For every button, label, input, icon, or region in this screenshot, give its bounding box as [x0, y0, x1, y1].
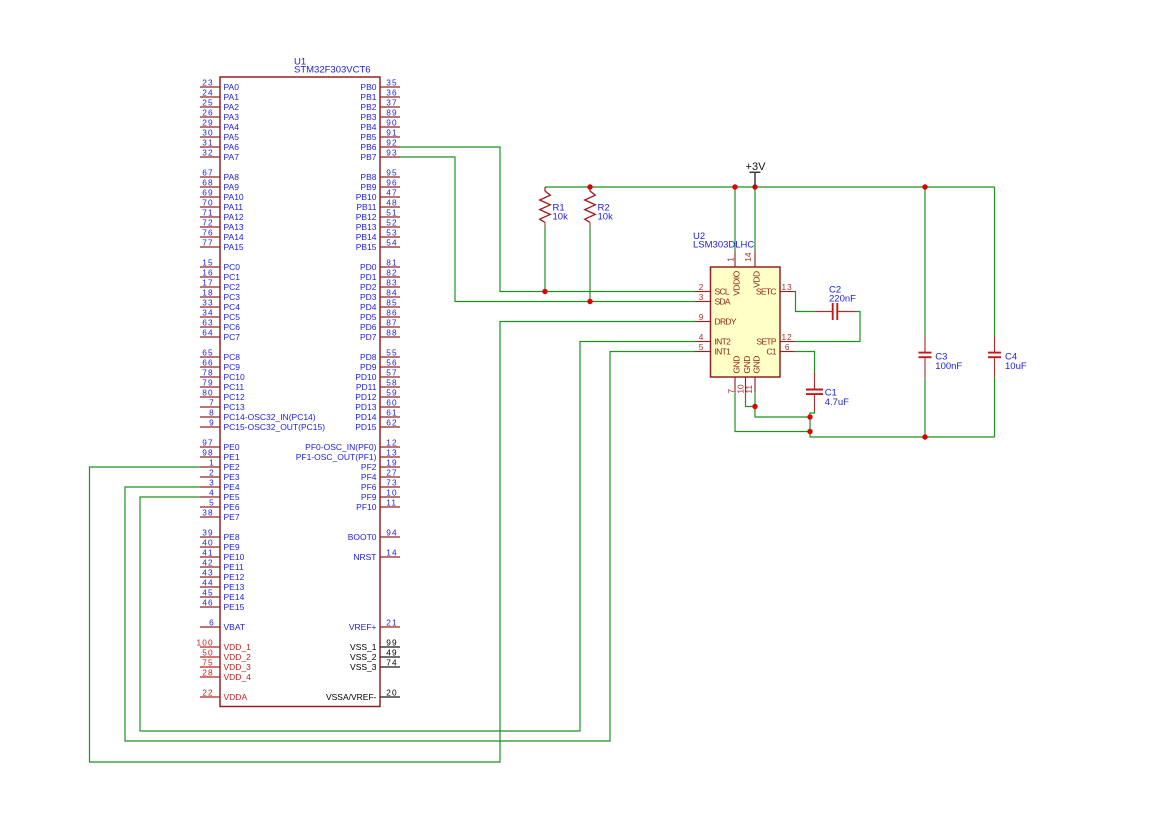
U1 pin 52 PB13 — [356, 217, 400, 232]
svg-text:13: 13 — [781, 282, 792, 292]
U1 pin 19 PF2 — [361, 457, 400, 472]
U1 pin 5 PE6 — [200, 497, 240, 512]
svg-text:74: 74 — [386, 657, 397, 667]
U2 pin 4 INT2 — [695, 332, 731, 347]
svg-text:GND: GND — [751, 356, 761, 374]
U1 pin 13 PF1-OSC_OUT(PF1) — [296, 447, 400, 462]
U1 pin 31 PA6 — [200, 137, 239, 152]
svg-text:PB5: PB5 — [360, 132, 376, 142]
U1 pin 92 PB6 — [360, 137, 400, 152]
U1 pin 95 PB8 — [360, 167, 400, 182]
svg-text:PD9: PD9 — [360, 362, 377, 372]
svg-text:20: 20 — [386, 687, 397, 697]
U2 pin 5 INT1 — [695, 342, 731, 357]
wire PB6 pin92 to U2 SCL — [400, 147, 695, 292]
U1 pin 18 PC3 — [200, 287, 240, 302]
U1 pin 59 PD12 — [355, 387, 400, 402]
U1 pin 86 PD5 — [360, 307, 400, 322]
wire PB7 pin93 to U2 SDA — [400, 157, 695, 302]
U1 pin 61 PD14 — [355, 407, 400, 422]
svg-text:94: 94 — [386, 527, 397, 537]
svg-text:GND: GND — [742, 356, 752, 374]
U1 pin 63 PC6 — [200, 317, 240, 332]
U1 pin 68 PA9 — [200, 177, 239, 192]
svg-text:PC4: PC4 — [224, 302, 241, 312]
U1 pin 66 PC9 — [200, 357, 240, 372]
U1 pin 98 PE1 — [200, 447, 240, 462]
svg-text:7: 7 — [726, 389, 736, 394]
U1 pin 44 PE13 — [200, 577, 245, 592]
svg-text:PC1: PC1 — [224, 272, 241, 282]
wire +3V rail to U2 VDDIO — [734, 187, 736, 253]
svg-text:34: 34 — [202, 307, 213, 317]
svg-text:4: 4 — [209, 487, 214, 497]
svg-text:PB7: PB7 — [360, 152, 376, 162]
capacitor C4 10uF — [988, 336, 1027, 378]
U1 pin 75 VDD_3 — [200, 657, 251, 672]
U1 pin 38 PE7 — [200, 507, 240, 522]
U1 pin 47 PB10 — [356, 187, 400, 202]
svg-text:C1: C1 — [766, 347, 776, 357]
wire +3V rail to C4 — [994, 187, 996, 336]
svg-text:43: 43 — [202, 567, 213, 577]
svg-text:78: 78 — [202, 367, 213, 377]
svg-text:VDD_4: VDD_4 — [224, 672, 252, 682]
svg-text:10: 10 — [386, 487, 397, 497]
svg-text:PC10: PC10 — [224, 372, 246, 382]
U1 pin 78 PC10 — [200, 367, 245, 382]
svg-text:PC11: PC11 — [224, 382, 245, 392]
op-amp U1 STM32F303VCT6 body — [220, 57, 380, 707]
svg-text:24: 24 — [202, 87, 213, 97]
svg-text:6: 6 — [785, 342, 790, 352]
svg-text:PB0: PB0 — [360, 82, 376, 92]
svg-text:10k: 10k — [553, 212, 569, 223]
svg-text:55: 55 — [386, 347, 397, 357]
svg-text:79: 79 — [202, 377, 213, 387]
U1 pin 1 PE2 — [200, 457, 240, 472]
svg-text:99: 99 — [386, 637, 397, 647]
svg-text:39: 39 — [202, 527, 213, 537]
U1 pin 42 PE11 — [200, 557, 244, 572]
U1 pin 62 PD15 — [355, 417, 400, 432]
svg-text:100: 100 — [197, 637, 214, 647]
svg-text:PB6: PB6 — [360, 142, 376, 152]
U1 pin 40 PE9 — [200, 537, 240, 552]
svg-text:PF0-OSC_IN(PF0): PF0-OSC_IN(PF0) — [305, 442, 376, 452]
wire U2 INT2 to U1 PE5 — [140, 342, 695, 732]
svg-text:PD3: PD3 — [360, 292, 377, 302]
junction R2 / SDA — [587, 299, 592, 304]
svg-text:INT2: INT2 — [715, 337, 732, 347]
svg-text:PC8: PC8 — [224, 352, 241, 362]
svg-text:5: 5 — [699, 342, 704, 352]
svg-text:PB2: PB2 — [360, 102, 376, 112]
U1 pin 6 VBAT — [200, 617, 245, 632]
svg-text:PC2: PC2 — [224, 282, 241, 292]
U2 pin 7 GND — [726, 356, 742, 394]
capacitor C1 4.7uF — [806, 372, 849, 412]
U1 pin 70 PA11 — [200, 197, 243, 212]
U1 pin 3 PE4 — [200, 477, 240, 492]
svg-text:83: 83 — [386, 277, 397, 287]
svg-text:6: 6 — [209, 617, 214, 627]
U2 pin 10 GND — [735, 356, 752, 394]
svg-text:PD6: PD6 — [360, 322, 377, 332]
wire U2 INT1 to U1 PE4 — [125, 352, 695, 742]
U1 pin 93 PB7 — [360, 147, 400, 162]
svg-text:PC14-OSC32_IN(PC14): PC14-OSC32_IN(PC14) — [224, 412, 316, 422]
U1 pin 91 PB5 — [360, 127, 400, 142]
svg-text:PA8: PA8 — [224, 172, 240, 182]
U1 pin 30 PA5 — [200, 127, 239, 142]
U1 pin 54 PB15 — [356, 237, 400, 252]
svg-text:PC0: PC0 — [224, 262, 241, 272]
svg-text:23: 23 — [202, 77, 213, 87]
U1 pin 72 PA13 — [200, 217, 244, 232]
svg-text:PD8: PD8 — [360, 352, 377, 362]
svg-text:VSS_3: VSS_3 — [350, 662, 377, 672]
svg-text:54: 54 — [386, 237, 397, 247]
svg-text:80: 80 — [202, 387, 213, 397]
svg-text:10k: 10k — [598, 212, 614, 223]
wire U2 SETC to C2 — [795, 292, 815, 312]
svg-text:PA0: PA0 — [224, 82, 240, 92]
U1 pin 60 PD13 — [355, 397, 400, 412]
svg-text:75: 75 — [202, 657, 213, 667]
svg-text:61: 61 — [386, 407, 397, 417]
svg-text:PB1: PB1 — [360, 92, 376, 102]
U2 pin 12 SETP — [756, 332, 794, 347]
svg-text:PB15: PB15 — [356, 242, 377, 252]
U1 pin 71 PA12 — [200, 207, 244, 222]
svg-text:VDD_3: VDD_3 — [224, 662, 252, 672]
svg-text:SETP: SETP — [756, 337, 776, 347]
U1 pin 88 PD7 — [360, 327, 400, 342]
wire C2 to U2 SETP — [795, 312, 861, 342]
U1 pin 53 PB14 — [356, 227, 400, 242]
svg-text:85: 85 — [386, 297, 397, 307]
svg-text:PF10: PF10 — [356, 502, 377, 512]
svg-text:LSM303DLHC: LSM303DLHC — [693, 240, 754, 251]
svg-text:21: 21 — [386, 617, 397, 627]
svg-text:PD14: PD14 — [355, 412, 377, 422]
svg-text:PB10: PB10 — [356, 192, 377, 202]
U1 pin 14 NRST — [353, 547, 400, 562]
svg-text:PF1-OSC_OUT(PF1): PF1-OSC_OUT(PF1) — [296, 452, 377, 462]
svg-text:PA2: PA2 — [224, 102, 240, 112]
svg-text:PA1: PA1 — [224, 92, 240, 102]
svg-text:96: 96 — [386, 177, 397, 187]
svg-text:PC7: PC7 — [224, 332, 241, 342]
svg-text:97: 97 — [202, 437, 213, 447]
svg-text:STM32F303VCT6: STM32F303VCT6 — [294, 65, 371, 76]
svg-text:PE3: PE3 — [224, 472, 240, 482]
wire C4 to GND rail — [994, 378, 996, 438]
svg-text:PD1: PD1 — [360, 272, 377, 282]
svg-text:PE13: PE13 — [224, 582, 245, 592]
svg-text:PD7: PD7 — [360, 332, 377, 342]
svg-text:22: 22 — [202, 687, 213, 697]
svg-text:87: 87 — [386, 317, 397, 327]
svg-text:93: 93 — [386, 147, 397, 157]
svg-text:PE8: PE8 — [224, 532, 240, 542]
wire U2 DRDY to U1 PE2 — [90, 322, 696, 763]
svg-text:VDDA: VDDA — [224, 692, 248, 702]
U1 pin 76 PA14 — [200, 227, 244, 242]
svg-text:98: 98 — [202, 447, 213, 457]
junction VDDIO / +3V — [732, 184, 737, 189]
svg-text:4.7uF: 4.7uF — [825, 397, 849, 408]
svg-text:27: 27 — [386, 467, 397, 477]
U1 pin 79 PC11 — [200, 377, 244, 392]
svg-text:PF2: PF2 — [361, 462, 377, 472]
svg-text:48: 48 — [386, 197, 397, 207]
U1 pin 64 PC7 — [200, 327, 240, 342]
svg-text:72: 72 — [202, 217, 213, 227]
svg-text:PC12: PC12 — [224, 392, 246, 402]
wire U2 C1 pin6 to C1 cap — [795, 352, 815, 373]
svg-text:PB9: PB9 — [360, 182, 376, 192]
svg-text:86: 86 — [386, 307, 397, 317]
U1 pin 17 PC2 — [200, 277, 240, 292]
svg-text:PC13: PC13 — [224, 402, 246, 412]
U1 pin 26 PA3 — [200, 107, 239, 122]
svg-text:9: 9 — [209, 417, 214, 427]
svg-text:38: 38 — [202, 507, 213, 517]
U1 pin 22 VDDA — [200, 687, 247, 702]
U1 pin 24 PA1 — [200, 87, 239, 102]
svg-text:64: 64 — [202, 327, 213, 337]
svg-text:NRST: NRST — [353, 552, 376, 562]
svg-text:66: 66 — [202, 357, 213, 367]
svg-text:VSS_1: VSS_1 — [350, 642, 377, 652]
svg-text:PE0: PE0 — [224, 442, 240, 452]
U1 pin 41 PE10 — [200, 547, 245, 562]
junction GND pins 10-11 — [752, 404, 757, 409]
U1 pin 29 PA4 — [200, 117, 239, 132]
svg-text:62: 62 — [386, 417, 397, 427]
svg-text:VBAT: VBAT — [224, 622, 246, 632]
U2 pin 13 SETC — [756, 282, 795, 297]
svg-text:44: 44 — [202, 577, 213, 587]
svg-text:92: 92 — [386, 137, 397, 147]
svg-text:PC9: PC9 — [224, 362, 241, 372]
U1 pin 48 PB11 — [356, 197, 400, 212]
svg-text:57: 57 — [386, 367, 397, 377]
svg-text:14: 14 — [743, 252, 753, 262]
svg-text:15: 15 — [202, 257, 213, 267]
svg-text:PA9: PA9 — [224, 182, 240, 192]
svg-text:18: 18 — [202, 287, 213, 297]
U1 pin 21 VREF+ — [349, 617, 400, 632]
U1 pin 33 PC4 — [200, 297, 240, 312]
svg-text:49: 49 — [386, 647, 397, 657]
svg-text:52: 52 — [386, 217, 397, 227]
U2 pin 6 C1 — [766, 342, 794, 357]
U2 pin 9 DRDY — [695, 312, 737, 327]
svg-text:PC6: PC6 — [224, 322, 241, 332]
U2 pin 1 VDDIO — [726, 253, 742, 296]
svg-text:PF4: PF4 — [361, 472, 377, 482]
U1 pin 37 PB2 — [360, 97, 400, 112]
U1 pin 9 PC15-OSC32_OUT(PC15) — [200, 417, 325, 432]
svg-text:PB4: PB4 — [360, 122, 376, 132]
svg-text:2: 2 — [699, 282, 704, 292]
svg-text:50: 50 — [202, 647, 213, 657]
U1 pin 7 PC13 — [200, 397, 245, 412]
svg-text:PB13: PB13 — [356, 222, 377, 232]
U1 pin 45 PE14 — [200, 587, 245, 602]
U1 pin 67 PA8 — [200, 167, 239, 182]
U2 pin 3 SDA — [695, 292, 731, 307]
U1 pin 4 PE5 — [200, 487, 240, 502]
svg-text:10uF: 10uF — [1005, 361, 1027, 372]
junction R1 / SCL — [542, 289, 547, 294]
svg-text:13: 13 — [386, 447, 397, 457]
svg-text:GND: GND — [731, 356, 741, 374]
svg-text:40: 40 — [202, 537, 213, 547]
svg-text:5: 5 — [209, 497, 214, 507]
U1 pin 55 PD8 — [360, 347, 400, 362]
U1 pin 34 PC5 — [200, 307, 240, 322]
U1 pin 51 PB12 — [356, 207, 400, 222]
svg-text:4: 4 — [699, 332, 704, 342]
svg-text:32: 32 — [202, 147, 213, 157]
U1 pin 49 VSS_2 — [350, 647, 400, 662]
svg-text:PC15-OSC32_OUT(PC15): PC15-OSC32_OUT(PC15) — [224, 422, 326, 432]
U1 pin 65 PC8 — [200, 347, 240, 362]
svg-text:69: 69 — [202, 187, 213, 197]
svg-text:PE4: PE4 — [224, 482, 240, 492]
svg-text:3: 3 — [699, 292, 704, 302]
svg-text:PB3: PB3 — [360, 112, 376, 122]
svg-text:2: 2 — [209, 467, 214, 477]
svg-text:PA13: PA13 — [224, 222, 244, 232]
svg-text:PC5: PC5 — [224, 312, 241, 322]
svg-text:19: 19 — [386, 457, 397, 467]
svg-text:70: 70 — [202, 197, 213, 207]
U1 pin 80 PC12 — [200, 387, 245, 402]
svg-text:PD12: PD12 — [355, 392, 377, 402]
U1 pin 15 PC0 — [200, 257, 240, 272]
junction R2 top / +3V — [587, 184, 592, 189]
svg-text:58: 58 — [386, 377, 397, 387]
svg-text:90: 90 — [386, 117, 397, 127]
junction VDD / +3V — [752, 184, 757, 189]
U1 pin 74 VSS_3 — [350, 657, 400, 672]
U1 pin 16 PC1 — [200, 267, 240, 282]
svg-text:PB14: PB14 — [356, 232, 377, 242]
svg-text:30: 30 — [202, 127, 213, 137]
svg-text:PD11: PD11 — [356, 382, 377, 392]
svg-text:VDD_1: VDD_1 — [224, 642, 252, 652]
svg-text:PD10: PD10 — [355, 372, 377, 382]
svg-text:12: 12 — [781, 332, 792, 342]
wire +3V rail — [545, 186, 995, 188]
U1 pin 56 PD9 — [360, 357, 400, 372]
U1 pin 2 PE3 — [200, 467, 240, 482]
svg-text:PD0: PD0 — [360, 262, 377, 272]
U1 pin 28 VDD_4 — [200, 667, 251, 682]
svg-text:51: 51 — [386, 207, 397, 217]
svg-text:PD13: PD13 — [355, 402, 377, 412]
svg-text:VDDIO: VDDIO — [731, 270, 741, 295]
junction C1 / GND — [807, 414, 812, 419]
U1 pin 97 PE0 — [200, 437, 240, 452]
junction C3 / GND rail — [922, 434, 927, 439]
svg-text:PE12: PE12 — [224, 572, 245, 582]
svg-text:PA15: PA15 — [224, 242, 244, 252]
power symbol +3V — [746, 161, 767, 186]
U1 pin 89 PB3 — [360, 107, 400, 122]
svg-text:PD2: PD2 — [360, 282, 377, 292]
U1 pin 32 PA7 — [200, 147, 239, 162]
wire R2 bottom to SDA net — [589, 227, 591, 302]
U1 pin 94 BOOT0 — [348, 527, 400, 542]
wire GND rail bottom — [810, 417, 995, 437]
junction GND pin7 — [807, 429, 812, 434]
svg-text:PF6: PF6 — [361, 482, 377, 492]
U1 pin 36 PB1 — [360, 87, 400, 102]
U1 pin 43 PE12 — [200, 567, 245, 582]
svg-text:PE15: PE15 — [224, 602, 245, 612]
op-amp U2 LSM303DLHC body — [693, 231, 780, 377]
U1 pin 10 PF9 — [361, 487, 400, 502]
svg-text:PE11: PE11 — [224, 562, 244, 572]
svg-text:SDA: SDA — [715, 297, 731, 307]
U2 pin 11 GND — [744, 356, 762, 394]
svg-text:45: 45 — [202, 587, 213, 597]
svg-text:VREF+: VREF+ — [349, 622, 377, 632]
svg-text:PB8: PB8 — [360, 172, 376, 182]
U1 pin 57 PD10 — [355, 367, 400, 382]
svg-text:PE5: PE5 — [224, 492, 240, 502]
wire C1 bottom to GND node — [810, 412, 815, 418]
wire +3V rail to U2 VDD — [754, 187, 756, 253]
svg-text:PD15: PD15 — [355, 422, 377, 432]
U1 pin 23 PA0 — [200, 77, 239, 92]
svg-text:35: 35 — [386, 77, 397, 87]
svg-text:PA3: PA3 — [224, 112, 240, 122]
svg-text:53: 53 — [386, 227, 397, 237]
wire +3V rail to C3 — [924, 187, 926, 336]
svg-text:PE6: PE6 — [224, 502, 240, 512]
svg-text:8: 8 — [209, 407, 214, 417]
svg-text:84: 84 — [386, 287, 397, 297]
svg-text:17: 17 — [202, 277, 213, 287]
U1 pin 100 VDD_1 — [197, 637, 252, 652]
svg-text:71: 71 — [202, 207, 213, 217]
svg-text:PA5: PA5 — [224, 132, 240, 142]
U1 pin 83 PD2 — [360, 277, 400, 292]
U1 pin 12 PF0-OSC_IN(PF0) — [305, 437, 400, 452]
svg-text:PB11: PB11 — [356, 202, 376, 212]
svg-text:PD4: PD4 — [360, 302, 377, 312]
svg-text:3: 3 — [209, 477, 214, 487]
wire C3 to GND rail — [924, 378, 926, 438]
svg-text:88: 88 — [386, 327, 397, 337]
svg-text:PB12: PB12 — [356, 212, 377, 222]
svg-text:PA4: PA4 — [224, 122, 240, 132]
svg-text:PC3: PC3 — [224, 292, 241, 302]
U1 pin 82 PD1 — [360, 267, 400, 282]
svg-text:25: 25 — [202, 97, 213, 107]
wire U2 GND pin11 — [755, 392, 810, 417]
svg-text:16: 16 — [202, 267, 213, 277]
capacitor C2 220nF — [815, 285, 856, 321]
svg-text:14: 14 — [386, 547, 397, 557]
